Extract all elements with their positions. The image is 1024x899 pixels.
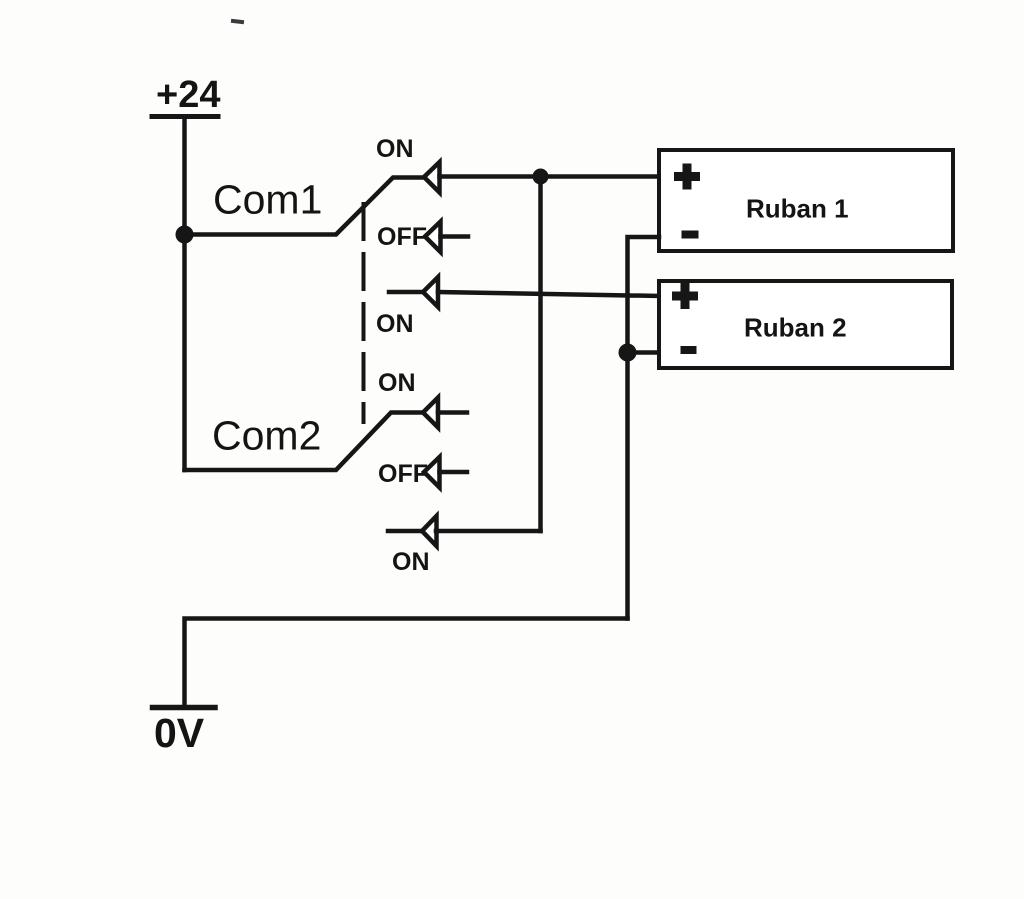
wire stub: Com2 OFF bbox=[440, 470, 468, 475]
wire: bottom return rail bbox=[185, 619, 628, 708]
wire: ON contact to Ruban 2 + bbox=[438, 292, 660, 296]
+24 rail bar bbox=[152, 114, 218, 119]
box: Ruban 1 bbox=[659, 150, 953, 251]
contact triangle: Com1 ON bbox=[424, 162, 440, 193]
wire stub: junction to Ruban 2 - bbox=[628, 350, 661, 355]
svg-text:Com2: Com2 bbox=[212, 413, 321, 459]
svg-text:Com1: Com1 bbox=[213, 177, 322, 223]
contact triangle: Com1 OFF bbox=[425, 222, 441, 253]
switch Com1: common wire and arm to ON contact bbox=[185, 178, 423, 235]
contact triangle: Com2 OFF bbox=[424, 457, 440, 488]
wire: lower ON contact to vertical feed bbox=[436, 529, 541, 534]
wire: +24 rail down to Com2 bbox=[182, 117, 187, 471]
wire: Ruban 1 - to bottom rail bbox=[628, 237, 660, 619]
svg-text:OFF: OFF bbox=[378, 460, 428, 488]
contact triangle: Com2 ON bbox=[423, 398, 438, 428]
terminal + of Ruban 1 bbox=[674, 164, 700, 190]
svg-text:ON: ON bbox=[378, 369, 416, 397]
wire: vertical from junction down to lower ON contact bbox=[538, 177, 543, 532]
svg-text:ON: ON bbox=[376, 310, 414, 338]
wire stub left of Ruban2 + contact bbox=[389, 290, 421, 295]
wire stub left of lower ON contact bbox=[388, 529, 420, 534]
mechanical link (dashed) between Com1 and Com2 arms bbox=[362, 204, 366, 422]
svg-text:Ruban 2: Ruban 2 bbox=[744, 313, 847, 343]
node: junction dot at Com1 tap bbox=[176, 226, 194, 244]
node: junction dot Ruban 2 - bbox=[619, 344, 637, 362]
scan speck bbox=[233, 21, 242, 22]
ground bar 0V bbox=[153, 705, 216, 711]
svg-text:OFF: OFF bbox=[377, 223, 427, 251]
wire: Com1 ON contact to Ruban 1 + bbox=[440, 174, 661, 179]
terminal - of Ruban 2 bbox=[681, 346, 697, 354]
svg-text:ON: ON bbox=[392, 548, 430, 576]
wire stub: Com2 ON bbox=[438, 410, 467, 415]
svg-text:0V: 0V bbox=[154, 710, 205, 756]
terminal + of Ruban 2 bbox=[672, 283, 698, 309]
terminal - of Ruban 1 bbox=[682, 231, 699, 239]
wire stub: Com1 OFF bbox=[441, 234, 469, 239]
svg-text:+24: +24 bbox=[156, 74, 220, 116]
svg-text:ON: ON bbox=[376, 135, 414, 163]
box: Ruban 2 bbox=[659, 281, 952, 368]
contact triangle: lower ON contact bbox=[422, 516, 437, 546]
node: junction dot on Ruban1 + feed bbox=[533, 169, 549, 185]
contact triangle: Ruban2 + feed ON bbox=[423, 277, 438, 307]
switch Com2: common wire and arm to ON contact bbox=[185, 413, 422, 471]
svg-text:Ruban 1: Ruban 1 bbox=[746, 194, 849, 224]
